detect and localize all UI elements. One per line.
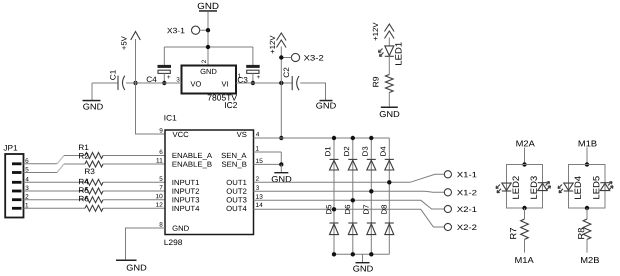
pin 6 label IC1 — [160, 150, 163, 154]
wire +5V down to IC1 VCC — [136, 83, 166, 134]
node GND/X3-1 junction — [206, 28, 210, 32]
wire R8 to M2B — [586, 239, 588, 252]
node col1 top — [332, 136, 336, 140]
capacitor C3 — [238, 65, 260, 83]
IC2 voltage regulator 7805TV — [182, 66, 238, 109]
LED LED1 — [379, 42, 402, 65]
node bridge1 bottom junction — [522, 206, 526, 210]
terminal X2-1 — [444, 205, 476, 212]
pin 3 label IC2 — [177, 77, 180, 81]
ground GND of SEN pins — [272, 164, 292, 182]
node C4 junction — [162, 81, 166, 85]
node M1B — [579, 141, 597, 147]
resistor R7 — [510, 219, 528, 239]
ground GND top-center — [198, 3, 219, 66]
supply +12V above LED1 — [373, 23, 394, 46]
wire bridge1 to R7 — [524, 208, 526, 219]
wire M1B to bridge2 — [586, 148, 588, 165]
node col4 OUT1 — [387, 180, 391, 184]
wire C3 top stub — [252, 47, 254, 65]
wire JP1 pin6 with jog — [24, 163, 58, 165]
LED LED5 — [593, 176, 613, 199]
wire cap ground rail — [164, 46, 253, 48]
node bridge2 bottom junction — [585, 206, 589, 210]
diode D6 — [345, 205, 357, 235]
pin 1 label IC2 — [238, 74, 241, 78]
wire VS rail — [254, 137, 390, 139]
wire diode bottom rail — [334, 253, 389, 255]
terminal X2-2 — [444, 223, 476, 230]
node +12V junction — [279, 81, 283, 85]
node cap-rail junction — [206, 45, 210, 49]
node VS rail junction — [279, 136, 283, 140]
pin 14 label IC1 — [256, 203, 263, 207]
wire OUT4 to X2-2 — [254, 209, 445, 227]
pin 6 label JP1 — [26, 158, 29, 162]
node SEN junction — [279, 162, 283, 166]
wire diode column 2 — [352, 138, 354, 254]
diode D4 — [380, 147, 393, 170]
LED LED4 — [558, 176, 581, 199]
terminal X3-2 — [281, 53, 323, 61]
node rail col2 — [351, 252, 355, 256]
wire R7 to M1A — [524, 239, 526, 252]
pin 3 label IC1 — [256, 185, 259, 189]
connector JP1 — [3, 145, 23, 217]
wire diode column 3 — [370, 138, 372, 254]
terminal X3-1 — [167, 26, 208, 34]
ground GND below R9 — [380, 107, 400, 118]
node C3 junction — [251, 81, 255, 85]
pin 2 label IC2 — [202, 60, 206, 63]
pin 2 label JP1 — [26, 194, 29, 198]
resistor R5 — [24, 187, 166, 202]
wire SEN_A — [254, 151, 282, 153]
wire +12V down to VS rail — [280, 83, 282, 138]
wire SEN_B — [254, 163, 282, 165]
pin 1 label IC1 — [256, 146, 259, 150]
node bridge1 top junction — [522, 162, 526, 166]
pin 12 label IC1 — [156, 202, 163, 206]
pin 13 label IC1 — [256, 194, 263, 198]
supply +5V — [121, 32, 140, 84]
ground GND right of C2 — [316, 100, 336, 109]
pin 4 label IC1 — [256, 132, 259, 136]
capacitor C2 — [284, 68, 299, 91]
resistor R1 — [64, 145, 165, 159]
resistor R8 — [578, 219, 591, 239]
capacitor C1 — [110, 70, 125, 90]
pin 11 label IC1 — [156, 158, 162, 162]
node M2B — [581, 257, 599, 263]
pin 10 label IC1 — [156, 194, 163, 198]
IC1 motor driver L298 — [164, 115, 253, 245]
node rail col1 — [332, 252, 336, 256]
terminal X1-1 — [444, 171, 476, 178]
node col1 OUT4 — [332, 207, 336, 211]
supply +12V near X3-2 — [270, 33, 286, 83]
pin 4 label JP1 — [26, 177, 29, 181]
pin 2 label IC1 — [256, 176, 259, 180]
diode D3 — [362, 147, 375, 170]
wire bridge2 to R8 — [586, 208, 588, 219]
wire C2 right to ground — [300, 83, 325, 100]
node X3-2 junction — [279, 55, 283, 59]
wire diode column 1 — [333, 138, 335, 254]
wire VI rail — [236, 82, 292, 84]
pin 3 label JP1 — [26, 186, 29, 190]
diode D5 — [326, 205, 338, 235]
resistor R4 — [24, 179, 166, 194]
wire OUT2 to X1-2 — [254, 191, 445, 192]
wire R9 to ground — [388, 93, 390, 107]
node +5V junction — [133, 81, 137, 85]
node bridge2 top junction — [585, 162, 589, 166]
node col2 OUT3 — [351, 198, 355, 202]
diode D1 — [325, 147, 338, 170]
terminal X1-2 — [444, 189, 476, 196]
wire bridge2 loop — [569, 165, 606, 209]
LED LED3 — [531, 176, 551, 199]
pin 8 label IC1 — [160, 222, 163, 226]
wire bridge1 loop — [507, 165, 543, 209]
node M1A — [515, 257, 533, 263]
node col3 OUT2 — [369, 189, 373, 193]
resistor R6 — [24, 196, 166, 211]
LED LED2 — [496, 176, 519, 199]
wire diode column 4 — [388, 138, 390, 254]
wire OUT1 to X1-1 — [254, 174, 445, 182]
resistor R2 — [64, 153, 165, 167]
wire OUT3 to X2-1 — [254, 200, 445, 209]
pin 5 label IC1 — [160, 176, 163, 180]
diode D2 — [344, 147, 357, 170]
wire C1 to +5V junction — [126, 82, 136, 84]
pin 9 label IC1 — [160, 128, 163, 132]
node col3 top — [369, 136, 373, 140]
diode D7 — [363, 205, 375, 235]
wire VO rail left segment — [92, 82, 118, 84]
node col2 top — [351, 136, 355, 140]
wire SEN join — [280, 152, 282, 164]
ground GND top-left (VO rail ground) — [83, 83, 103, 110]
pin 5 label JP1 — [26, 167, 29, 171]
pin 15 label IC1 — [256, 159, 263, 163]
wire VO rail to IC2 — [126, 82, 182, 84]
ground GND below IC1 — [116, 260, 146, 271]
pin 1 label JP1 — [26, 203, 29, 207]
diode D8 — [381, 205, 393, 235]
resistor R3 — [24, 169, 166, 186]
resistor R9 — [373, 75, 393, 93]
wire LED1 to R9 — [388, 56, 390, 74]
node rail col3 — [369, 252, 373, 256]
wire IC1 GND pin8 — [126, 228, 166, 260]
pin 7 label IC1 — [160, 185, 163, 189]
wire M2A to bridge1 — [524, 148, 526, 165]
wire JP1 pin5 with jog — [24, 172, 58, 174]
ground GND below diode matrix — [353, 254, 373, 271]
node M2A — [516, 140, 534, 146]
wire C4 top stub — [163, 47, 165, 65]
capacitor C4 — [147, 65, 171, 83]
